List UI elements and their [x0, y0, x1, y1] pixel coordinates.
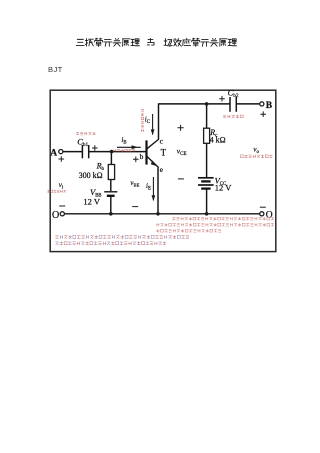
label Cb1	[77, 136, 88, 148]
svg-text:Cb2: Cb2	[228, 88, 239, 100]
wire: Rc junction down	[206, 104, 208, 128]
current arrow iE	[152, 177, 156, 201]
label Rb	[96, 161, 105, 172]
wire: Rb junction down	[110, 152, 112, 165]
plus above vCE	[178, 125, 184, 131]
node: base-Rb junction	[110, 150, 114, 154]
svg-text:e: e	[160, 165, 164, 174]
label iC	[145, 116, 150, 126]
annotation 输出的放大电压 below vo	[241, 155, 273, 158]
svg-text:B: B	[266, 101, 273, 111]
svg-text:T: T	[161, 148, 167, 158]
svg-text:b: b	[140, 152, 144, 161]
svg-text:vBE: vBE	[130, 179, 139, 188]
label Rc	[209, 128, 218, 139]
annotation paragraph right line1	[172, 217, 273, 220]
svg-text:iE: iE	[146, 182, 151, 192]
wire: A to Cb1	[63, 151, 82, 153]
terminal A	[50, 149, 63, 159]
svg-text:vCE: vCE	[177, 146, 187, 157]
title: 三极管开关原理 与 场效应管开关原理	[76, 38, 236, 46]
label vo	[253, 145, 259, 155]
wire: Rb to VBB	[110, 180, 112, 192]
plus below A	[59, 156, 65, 162]
wire: VBB to bottom rail	[110, 196, 112, 214]
minus above vi	[59, 205, 65, 207]
wire: Cb1 to base	[89, 151, 146, 153]
svg-text:4 kΩ: 4 kΩ	[210, 135, 226, 144]
transistor T base bar	[145, 140, 147, 164]
plus left of Cb2	[219, 96, 225, 102]
svg-text:O: O	[52, 210, 59, 221]
svg-text:Cb1: Cb1	[77, 136, 88, 148]
annotation paragraph left line1	[56, 235, 189, 238]
node: VBB bottom junction	[109, 212, 113, 216]
label b	[140, 152, 144, 161]
svg-text:300 kΩ: 300 kΩ	[79, 171, 103, 180]
node: Rc top junction	[205, 102, 209, 106]
label VBB	[90, 187, 102, 199]
svg-text:A: A	[50, 149, 57, 159]
svg-text:12 V: 12 V	[83, 196, 100, 206]
annotation paragraph right line3	[156, 229, 220, 232]
minus below vBE	[132, 206, 138, 208]
annotation (输入电流) on base wire	[113, 149, 135, 152]
node: emitter bottom junction	[156, 212, 160, 216]
resistor Rb	[108, 165, 114, 180]
label Cb2	[228, 88, 239, 100]
label iB	[121, 136, 126, 146]
battery VBB	[104, 192, 117, 196]
label e	[160, 165, 164, 174]
transistor T collector diagonal	[147, 139, 159, 149]
value 12 V (VCC)	[215, 182, 232, 192]
transistor T emitter diagonal with arrow	[147, 156, 159, 167]
wire: bottom rail	[64, 213, 259, 215]
plus left of base	[133, 157, 139, 163]
wire: VCC to bottom rail	[206, 189, 208, 214]
annotation (输出电流) vertical	[141, 109, 144, 132]
wire: collector vertical	[158, 103, 160, 139]
label BJT	[48, 65, 63, 74]
label vBE	[130, 179, 139, 188]
svg-text:vi: vi	[59, 181, 64, 191]
svg-text:iB: iB	[121, 136, 126, 146]
annotation (隔直电容) below Cb2	[223, 115, 243, 118]
annotation 待放大的输入电压 below vi	[47, 190, 65, 192]
label T	[161, 148, 167, 158]
svg-text:vo: vo	[253, 145, 259, 155]
plus below B	[260, 111, 266, 117]
plus right of Cb1	[92, 145, 98, 151]
label c	[160, 137, 164, 146]
label vCE	[177, 146, 187, 157]
battery VCC	[198, 178, 214, 189]
annotation (隔直电容) above Cb1	[76, 132, 95, 135]
current arrow iC	[151, 114, 155, 135]
minus below vCE	[178, 178, 184, 180]
node: VCC bottom junction	[205, 212, 209, 216]
value 4 kΩ	[210, 135, 226, 144]
capacitor Cb2	[230, 97, 236, 112]
terminal O right	[260, 210, 273, 220]
resistor Rc	[204, 128, 210, 143]
wire: Rc to VCC	[206, 143, 208, 177]
wire: emitter vertical	[157, 168, 159, 214]
terminal O left	[52, 210, 64, 221]
current arrow iB	[117, 145, 141, 149]
svg-text:c: c	[160, 137, 164, 146]
svg-text:iC: iC	[145, 116, 150, 126]
diagram frame	[50, 90, 276, 251]
label VCC	[215, 175, 227, 187]
svg-text:BJT: BJT	[48, 65, 63, 74]
capacitor Cb1	[82, 145, 88, 158]
annotation paragraph right line2	[157, 223, 274, 226]
annotation paragraph left line2	[55, 242, 166, 245]
value 300 kΩ	[79, 171, 103, 180]
minus above right O	[260, 206, 266, 208]
terminal B	[260, 101, 273, 111]
value 12 V (VBB)	[83, 196, 100, 206]
wire: top rail collector to Cb2	[159, 103, 230, 105]
label iE	[146, 182, 151, 192]
svg-text:12 V: 12 V	[215, 182, 232, 192]
label vi	[59, 181, 64, 191]
wire: Cb2 right plate to terminal B	[236, 103, 259, 105]
